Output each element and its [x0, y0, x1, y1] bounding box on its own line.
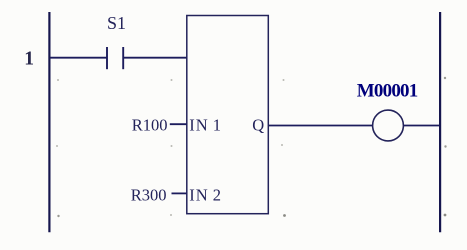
pin label IN1: [189, 115, 222, 134]
wire: coil to right rail: [403, 125, 440, 127]
label M00001: [357, 81, 418, 102]
pin label IN2: [189, 185, 222, 204]
label S1: [107, 13, 126, 33]
contact S1 (normally open): [107, 47, 123, 69]
wire: R300 to pin IN2: [172, 192, 187, 194]
svg-text:IN1: IN1: [189, 115, 222, 134]
wire: R100 to pin IN1: [170, 123, 187, 125]
wire: left rail to contact S1: [50, 57, 107, 59]
wire: pin Q to coil: [269, 125, 373, 127]
operand label R300: [131, 185, 167, 204]
right power rail: [439, 12, 441, 232]
svg-text:R300: R300: [131, 185, 167, 204]
svg-text:S1: S1: [107, 13, 126, 33]
output coil M00001: [373, 110, 404, 141]
left power rail: [48, 12, 50, 232]
svg-text:IN2: IN2: [189, 185, 222, 204]
svg-text:M00001: M00001: [357, 81, 418, 102]
function block U1: [187, 16, 268, 214]
pin label Q: [252, 115, 264, 134]
svg-text:Q: Q: [252, 115, 264, 134]
svg-text:R100: R100: [132, 115, 168, 134]
svg-text:1: 1: [24, 48, 34, 69]
rung number 1: [24, 48, 34, 69]
wire: contact S1 to function block: [124, 57, 187, 59]
operand label R100: [132, 115, 168, 134]
